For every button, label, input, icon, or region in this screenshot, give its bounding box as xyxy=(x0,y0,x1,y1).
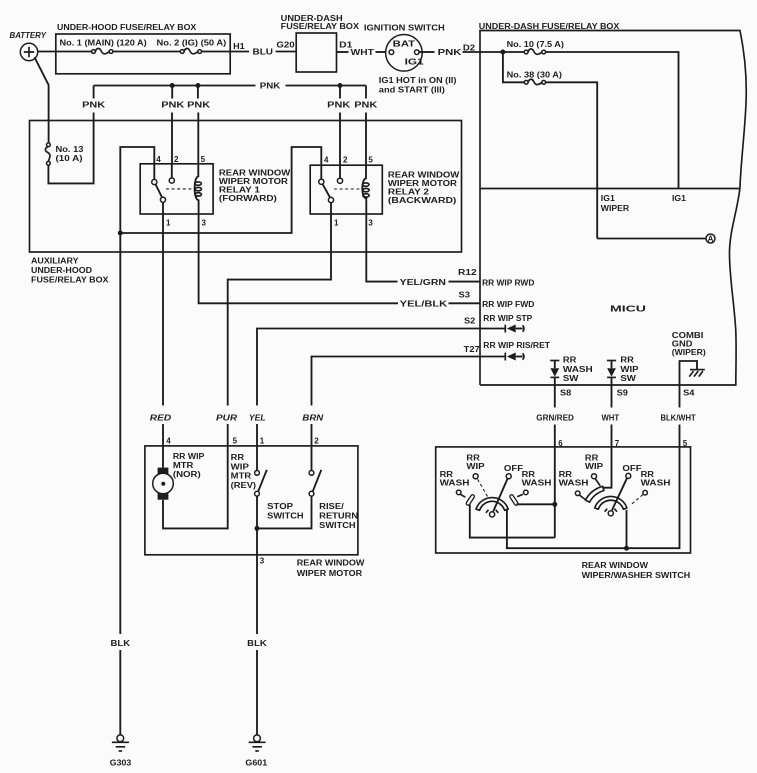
rear window wiper/washer switch box xyxy=(436,447,691,580)
svg-text:G20: G20 xyxy=(276,41,295,50)
svg-text:MTR: MTR xyxy=(231,472,252,481)
svg-text:PNK: PNK xyxy=(327,101,350,110)
svg-text:GRN/RED: GRN/RED xyxy=(536,413,574,422)
svg-text:IG1: IG1 xyxy=(672,194,687,203)
ground G601 xyxy=(245,735,267,767)
svg-text:RR: RR xyxy=(563,356,577,365)
svg-text:SWITCH: SWITCH xyxy=(319,521,356,530)
MICU divider line xyxy=(480,188,740,190)
wiper rotary OFF contact xyxy=(622,464,641,478)
wire PNK drop to relay R1 pin 2 xyxy=(161,86,184,164)
wire fuse13 to PNK bus xyxy=(48,86,93,184)
wire battery to fuse No.13 xyxy=(35,57,49,143)
svg-text:S4: S4 xyxy=(683,388,695,397)
wire WHT S9 to switch pin 7 xyxy=(602,385,620,447)
diode on T27 line (RR WIP RIS/RET) xyxy=(480,353,524,361)
svg-text:MTR: MTR xyxy=(173,461,194,470)
svg-text:RETURN: RETURN xyxy=(319,511,358,520)
svg-text:(10 A): (10 A) xyxy=(56,154,83,163)
svg-text:SW: SW xyxy=(620,374,636,383)
ground G303 xyxy=(110,735,132,767)
svg-text:G601: G601 xyxy=(245,758,267,767)
svg-text:1: 1 xyxy=(166,219,171,228)
svg-text:RR WIP FWD: RR WIP FWD xyxy=(482,300,535,309)
svg-text:RR: RR xyxy=(231,453,245,462)
diode RR WASH SW (S8) xyxy=(550,356,593,385)
wire GRN/RED S8 to switch pin 6 xyxy=(536,385,574,447)
svg-text:2: 2 xyxy=(343,156,348,165)
rear window wiper motor box xyxy=(145,446,365,578)
svg-text:A: A xyxy=(708,234,714,243)
svg-text:UNDER-HOOD: UNDER-HOOD xyxy=(31,266,92,275)
wire washer rotor to ground bus xyxy=(507,447,680,548)
svg-text:BLK: BLK xyxy=(247,639,267,648)
wire PNK drop to relay R2 pin 5 xyxy=(354,86,377,166)
wire fuse38 to IG1 WIPER xyxy=(546,82,598,238)
svg-text:PNK: PNK xyxy=(187,101,210,110)
svg-text:4: 4 xyxy=(324,156,329,165)
wire battery to under-hood fuse/relay box xyxy=(38,51,56,53)
svg-text:BATTERY: BATTERY xyxy=(10,31,47,40)
svg-text:R12: R12 xyxy=(458,268,477,277)
svg-text:S8: S8 xyxy=(560,388,572,397)
svg-text:OFF: OFF xyxy=(622,464,641,473)
svg-text:UNDER-HOOD FUSE/RELAY BOX: UNDER-HOOD FUSE/RELAY BOX xyxy=(57,23,197,32)
svg-text:BRN: BRN xyxy=(302,413,323,422)
svg-text:AUXILIARY: AUXILIARY xyxy=(31,256,79,265)
svg-text:1: 1 xyxy=(334,219,339,228)
svg-text:3: 3 xyxy=(260,557,265,566)
svg-text:WHT: WHT xyxy=(351,48,374,57)
rise/return switch xyxy=(309,446,358,530)
svg-text:3: 3 xyxy=(202,219,207,228)
svg-text:5: 5 xyxy=(201,155,206,164)
battery xyxy=(10,31,47,61)
relay U1 label xyxy=(219,168,291,203)
washer rotary lever to OFF xyxy=(493,479,507,512)
svg-text:4: 4 xyxy=(156,155,161,164)
wire WHT segment xyxy=(337,48,390,57)
svg-text:RR WIP RIS/RET: RR WIP RIS/RET xyxy=(483,341,550,350)
svg-text:4: 4 xyxy=(166,437,171,446)
svg-text:FUSE/RELAY BOX: FUSE/RELAY BOX xyxy=(31,275,109,284)
wiper rotary left RR WASH contact xyxy=(559,470,589,500)
wire PUR relay U2 pin 1 to motor pin 5 xyxy=(216,214,331,446)
under-dash fuse/relay box (main, right) xyxy=(479,22,746,385)
svg-text:WASH: WASH xyxy=(641,478,671,487)
svg-text:RR WIP: RR WIP xyxy=(173,452,205,461)
wire BLK motor pin 3 to ground G601 xyxy=(247,528,267,734)
svg-text:PNK: PNK xyxy=(354,101,377,110)
fuse No.38 (30 A) xyxy=(503,52,562,85)
svg-text:SWITCH: SWITCH xyxy=(267,511,304,520)
svg-text:No. 38 (30 A): No. 38 (30 A) xyxy=(507,71,563,80)
svg-text:YEL: YEL xyxy=(249,413,266,422)
svg-text:PNK: PNK xyxy=(82,101,105,110)
diode on S2 line (RR WIP STP) xyxy=(480,325,524,333)
wire ground bus to relay U2 pin 4 xyxy=(120,147,321,233)
wiper rotary right RR WASH contact xyxy=(631,470,671,505)
wire stop switch to rise/return switch xyxy=(257,496,312,528)
washer rotary right RR WASH contact xyxy=(512,470,552,504)
svg-text:REAR WINDOW: REAR WINDOW xyxy=(582,561,649,570)
svg-text:OFF: OFF xyxy=(504,464,523,473)
svg-text:G303: G303 xyxy=(110,758,132,767)
node stop switch junction xyxy=(255,526,260,531)
svg-text:WIPER: WIPER xyxy=(601,204,630,213)
wire YEL/GRN relay U2 pin 3 to R12 xyxy=(366,214,480,287)
ignition switch xyxy=(364,23,457,94)
svg-text:T27: T27 xyxy=(464,345,481,354)
svg-text:WASH: WASH xyxy=(559,478,589,487)
fuse No.2 (IG) (50 A) xyxy=(157,38,227,54)
svg-text:FUSE/RELAY BOX: FUSE/RELAY BOX xyxy=(281,22,360,31)
node ground bus junction xyxy=(118,231,123,236)
wiper rotary lever to OFF xyxy=(612,478,627,510)
svg-text:WIP: WIP xyxy=(231,462,250,471)
stop switch xyxy=(255,446,304,529)
combi gnd (wiper) chassis ground xyxy=(672,331,706,385)
svg-text:No. 10 (7.5 A): No. 10 (7.5 A) xyxy=(507,40,565,49)
svg-text:5: 5 xyxy=(233,437,238,446)
washer rotary left RR WASH contact xyxy=(440,470,473,504)
svg-text:MICU: MICU xyxy=(610,305,646,314)
node pin6 junction xyxy=(552,502,557,507)
wire BLU segment xyxy=(253,47,297,56)
svg-text:WIPER/WASHER SWITCH: WIPER/WASHER SWITCH xyxy=(582,571,691,580)
svg-text:3: 3 xyxy=(368,219,373,228)
svg-text:S9: S9 xyxy=(617,388,629,397)
wire PNK drop to relay R1 pin 5 xyxy=(187,86,210,164)
wire wiper rotor to ground bus xyxy=(626,510,628,548)
relay U2 REAR WINDOW WIPER MOTOR RELAY 2 (BACKWARD) xyxy=(310,165,382,214)
under-hood fuse/relay box xyxy=(56,23,230,74)
svg-text:WASH: WASH xyxy=(440,478,470,487)
svg-text:RISE/: RISE/ xyxy=(319,502,344,511)
svg-text:2: 2 xyxy=(314,437,319,446)
svg-text:IG1: IG1 xyxy=(405,58,425,67)
motor REV label xyxy=(231,453,257,490)
svg-text:WASH: WASH xyxy=(563,365,593,374)
wire YEL/BLK relay U1 pin 3 to S3 xyxy=(199,214,480,308)
wire PNK ignition to D2 xyxy=(419,48,503,57)
wiper rotary track segment to pin 7 xyxy=(585,447,611,502)
svg-text:S3: S3 xyxy=(459,291,471,300)
wire PNK drop to relay R2 pin 2 xyxy=(327,86,350,166)
svg-text:H1: H1 xyxy=(233,42,245,51)
node ground bus wiper rotor junction xyxy=(624,546,629,551)
washer rotary RR WIP contact xyxy=(466,454,487,497)
svg-text:YEL/BLK: YEL/BLK xyxy=(400,299,448,308)
svg-text:(FORWARD): (FORWARD) xyxy=(219,194,277,203)
svg-text:REAR WINDOW: REAR WINDOW xyxy=(297,559,365,568)
wire YEL stop switch to S2 xyxy=(249,329,480,446)
svg-text:RED: RED xyxy=(150,413,172,422)
svg-text:WHT: WHT xyxy=(602,413,620,422)
svg-text:5: 5 xyxy=(368,156,373,165)
svg-text:WIPER MOTOR: WIPER MOTOR xyxy=(297,569,363,578)
node PNK bus to relay1 pin2 xyxy=(170,83,175,88)
svg-text:(REV): (REV) xyxy=(231,481,257,490)
wire relay U1 pin 4 to ground bus xyxy=(120,147,154,233)
svg-text:WIP: WIP xyxy=(585,462,604,471)
svg-text:No. 13: No. 13 xyxy=(56,145,85,154)
svg-text:PNK: PNK xyxy=(161,101,184,110)
wiper rotary switch rotor xyxy=(595,496,627,515)
svg-text:(BACKWARD): (BACKWARD) xyxy=(388,196,457,205)
svg-text:WIP: WIP xyxy=(620,365,639,374)
node D2 junction xyxy=(500,50,505,55)
svg-text:IG1: IG1 xyxy=(601,194,616,203)
washer rotary switch rotor xyxy=(476,498,508,517)
svg-text:1: 1 xyxy=(260,437,265,446)
terminal A xyxy=(706,234,715,243)
svg-text:IGNITION SWITCH: IGNITION SWITCH xyxy=(364,23,445,32)
node PNK bus to relay2 pin2 xyxy=(338,83,343,88)
svg-text:D2: D2 xyxy=(463,44,476,53)
net label IG1 WIPER xyxy=(601,194,630,213)
relay U1 REAR WINDOW WIPER MOTOR RELAY 1 (FORWARD) xyxy=(140,164,213,214)
svg-text:RR WIP RWD: RR WIP RWD xyxy=(482,279,535,288)
svg-text:RR: RR xyxy=(620,356,634,365)
node PNK bus to relay1 pin5 xyxy=(195,83,200,88)
svg-text:RR WIP STP: RR WIP STP xyxy=(483,314,533,323)
svg-text:YEL/GRN: YEL/GRN xyxy=(400,278,446,287)
under-dash fuse/relay box (connector) xyxy=(281,14,360,72)
wire BRN rise/return switch to T27 xyxy=(302,357,480,446)
svg-text:No. 2 (IG) (50 A): No. 2 (IG) (50 A) xyxy=(157,38,227,47)
wire main feed through under-hood box xyxy=(56,51,249,53)
fuse No.1 (MAIN) (120 A) xyxy=(60,38,148,54)
svg-text:WASH: WASH xyxy=(522,478,552,487)
svg-text:2: 2 xyxy=(174,155,179,164)
PNK bus wire xyxy=(94,82,366,91)
wiper rotary RR WIP contact xyxy=(585,454,604,486)
svg-text:(WIPER): (WIPER) xyxy=(672,348,706,357)
svg-text:PNK: PNK xyxy=(260,82,281,91)
wire BLK/WHT S4 to switch pin 5 xyxy=(661,385,696,447)
relay U2 label xyxy=(388,170,460,205)
svg-text:and START (III): and START (III) xyxy=(379,85,445,94)
wire motor to PUR pin 5 xyxy=(163,446,228,529)
svg-text:BLU: BLU xyxy=(253,47,274,56)
diode RR WIP SW (S9) xyxy=(607,356,639,385)
svg-text:PNK: PNK xyxy=(438,48,462,57)
svg-text:BLK/WHT: BLK/WHT xyxy=(661,413,696,422)
svg-text:BLK: BLK xyxy=(111,639,131,648)
wire BLK to ground G303 xyxy=(111,233,131,735)
auxiliary under-hood fuse/relay box xyxy=(30,121,462,285)
svg-text:No. 1 (MAIN) (120 A): No. 1 (MAIN) (120 A) xyxy=(60,38,148,47)
svg-text:IG1 HOT in ON (II): IG1 HOT in ON (II) xyxy=(379,76,457,85)
svg-text:S2: S2 xyxy=(464,316,476,325)
svg-text:(NOR): (NOR) xyxy=(173,470,201,479)
svg-text:PUR: PUR xyxy=(216,413,237,422)
svg-text:SW: SW xyxy=(563,374,579,383)
wire fuse10 to IG1 xyxy=(546,52,679,189)
svg-text:BAT: BAT xyxy=(393,40,416,49)
wire IG1 WIPER to terminal A xyxy=(597,238,706,240)
wire washer wash pads to pin 6 xyxy=(470,447,555,538)
washer rotary OFF contact xyxy=(504,464,523,479)
svg-text:WIP: WIP xyxy=(466,462,485,471)
svg-text:STOP: STOP xyxy=(267,502,294,511)
wire RED relay U1 pin 1 to motor pin 4 xyxy=(150,214,172,446)
fuse No.10 (7.5 A) xyxy=(503,40,564,55)
motor M1 (RR WIP MTR) xyxy=(153,446,205,500)
fuse No.13 (10 A) xyxy=(45,143,84,165)
